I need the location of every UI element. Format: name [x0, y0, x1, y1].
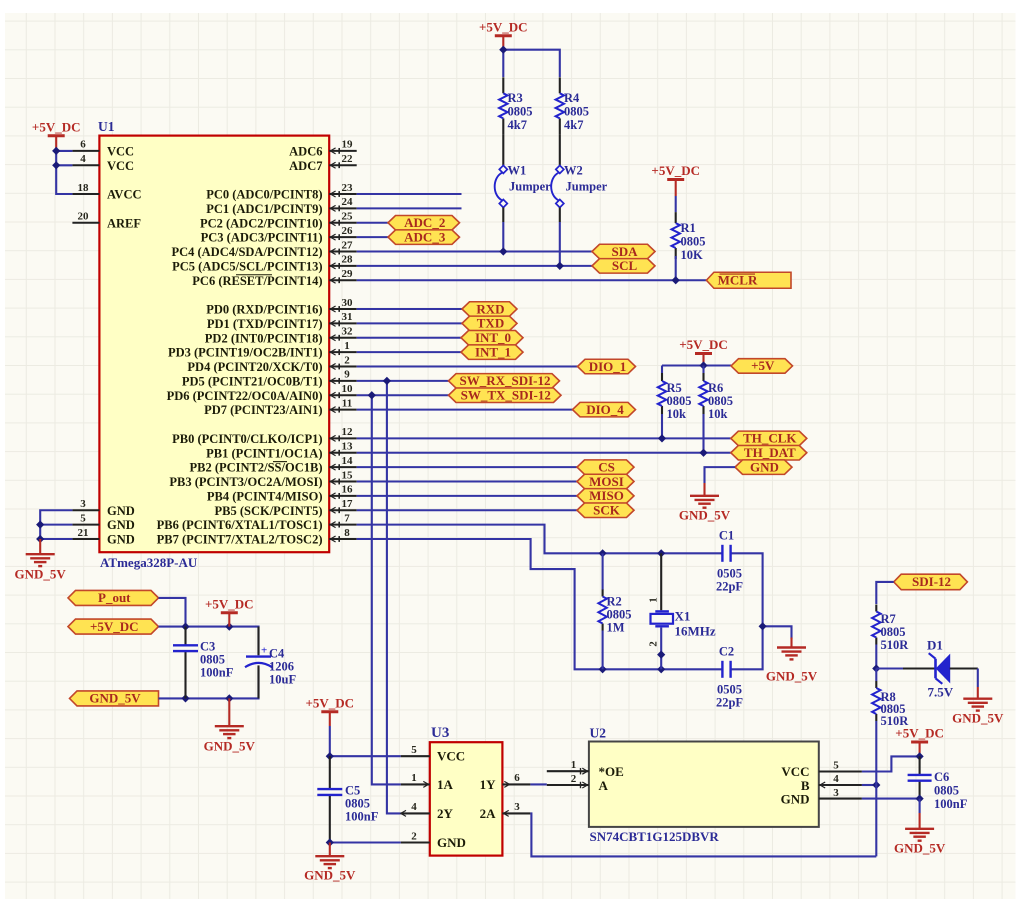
- svg-text:GND: GND: [437, 835, 466, 850]
- power +5V_DC above C3/C4: [205, 596, 254, 626]
- net label SDI-12: [894, 574, 968, 590]
- svg-text:PC4 (ADC4/SDA/PCINT12): PC4 (ADC4/SDA/PCINT12): [171, 245, 322, 259]
- junction R5/PB0: [659, 435, 666, 442]
- svg-text:R6: R6: [708, 381, 723, 395]
- svg-text:0805: 0805: [881, 625, 906, 639]
- svg-text:PB7 (PCINT7/XTAL2/TOSC2): PB7 (PCINT7/XTAL2/TOSC2): [157, 533, 323, 547]
- junction VCC node: [53, 148, 60, 155]
- net label ADC_2: [388, 215, 460, 230]
- junction X1 top: [658, 550, 665, 557]
- ground GND_5V below C3/C4: [204, 698, 256, 753]
- svg-text:PB4 (PCINT4/MISO): PB4 (PCINT4/MISO): [207, 489, 323, 503]
- U1 pin 8: [329, 527, 357, 542]
- wire +5V rail to C4: [159, 627, 259, 655]
- svg-text:VCC: VCC: [107, 144, 134, 158]
- wire D1 to ground: [977, 669, 979, 688]
- svg-text:10k: 10k: [667, 407, 687, 421]
- svg-text:GND: GND: [107, 504, 135, 518]
- svg-text:TH_CLK: TH_CLK: [743, 431, 797, 446]
- svg-text:2: 2: [571, 773, 577, 785]
- svg-text:*OE: *OE: [599, 764, 624, 779]
- U3 pin 5: [401, 744, 430, 756]
- U1 pin 31: [329, 311, 357, 326]
- wire C5 leads: [329, 756, 331, 842]
- svg-text:4: 4: [411, 801, 417, 813]
- wire R8 to bottom run: [875, 721, 877, 856]
- U1 pin 20: [72, 211, 99, 223]
- ground GND_5V below U1: [15, 539, 67, 582]
- U2 pin 5: [819, 760, 862, 772]
- U1 pin 18: [72, 182, 99, 194]
- svg-text:C1: C1: [719, 529, 734, 543]
- wire SDI-12 to R7: [876, 582, 893, 604]
- svg-text:GND_5V: GND_5V: [894, 841, 946, 856]
- net label ADC_3: [388, 229, 460, 244]
- svg-text:PB1 (PCINT1/OC1A): PB1 (PCINT1/OC1A): [206, 446, 322, 460]
- svg-text:15: 15: [342, 469, 354, 481]
- svg-text:+5V_DC: +5V_DC: [32, 119, 81, 134]
- wire PD3 INT_1: [357, 351, 461, 353]
- svg-text:0805: 0805: [508, 105, 533, 119]
- svg-text:PC2 (ADC2/PCINT10): PC2 (ADC2/PCINT10): [200, 216, 323, 230]
- wire PB3 MOSI: [357, 480, 577, 482]
- net label INT_0: [461, 330, 523, 345]
- wire PB5 SCK: [357, 509, 577, 511]
- wire U2 B to SDI line: [862, 784, 876, 786]
- U1 pin 4: [72, 153, 99, 165]
- wire PD7 DIO_4: [357, 409, 573, 411]
- junction +5V R3/R4: [500, 46, 507, 53]
- svg-text:1: 1: [344, 340, 350, 352]
- svg-text:14: 14: [342, 455, 354, 467]
- svg-text:U2: U2: [590, 726, 607, 741]
- svg-text:100nF: 100nF: [200, 666, 234, 680]
- wire GND rail to C4: [159, 668, 259, 699]
- svg-text:+5V_DC: +5V_DC: [651, 163, 700, 178]
- svg-text:CS: CS: [598, 459, 615, 474]
- svg-text:+5V_DC: +5V_DC: [306, 695, 355, 710]
- wire U2 VCC to +5V node: [862, 756, 920, 771]
- svg-text:0805: 0805: [681, 235, 706, 249]
- svg-text:25: 25: [342, 211, 354, 223]
- svg-text:C3: C3: [200, 640, 215, 654]
- wire VCC pin6: [56, 150, 72, 152]
- wire node to R8: [875, 669, 877, 682]
- svg-text:13: 13: [342, 441, 354, 453]
- svg-text:PC0 (ADC0/PCINT8): PC0 (ADC0/PCINT8): [206, 188, 322, 202]
- wire W2 to bus: [559, 222, 561, 266]
- svg-text:PC1 (ADC1/PCINT9): PC1 (ADC1/PCINT9): [206, 202, 322, 216]
- wire PC0: [357, 193, 462, 195]
- svg-text:22pF: 22pF: [716, 580, 743, 594]
- svg-text:0805: 0805: [564, 105, 589, 119]
- svg-text:2Y: 2Y: [437, 806, 454, 821]
- wire PC5 SCL net: [357, 265, 592, 267]
- svg-text:31: 31: [342, 311, 353, 323]
- net label GND_5V flag: [70, 691, 159, 706]
- U1 right pin names: [157, 144, 323, 546]
- svg-text:1: 1: [571, 759, 577, 771]
- svg-text:C2: C2: [719, 645, 734, 659]
- svg-text:12: 12: [342, 426, 354, 438]
- svg-text:5: 5: [80, 512, 86, 524]
- svg-text:1: 1: [411, 772, 417, 784]
- svg-text:PD5 (PCINT21/OC0B/T1): PD5 (PCINT21/OC0B/T1): [182, 374, 323, 388]
- resistor R6: [699, 373, 733, 421]
- junction GND pin5: [37, 521, 44, 528]
- svg-text:0805: 0805: [607, 608, 632, 622]
- svg-text:VCC: VCC: [437, 749, 465, 764]
- svg-text:3: 3: [80, 498, 86, 510]
- U1 pin 6: [72, 139, 99, 151]
- svg-text:GND: GND: [781, 792, 810, 807]
- wire PB6 to crystal top rail: [357, 525, 723, 554]
- svg-text:7: 7: [344, 512, 350, 524]
- svg-text:C6: C6: [934, 770, 949, 784]
- U1 pin 24: [329, 196, 357, 211]
- net label +5V_DC flag: [68, 619, 159, 634]
- svg-text:TXD: TXD: [477, 316, 504, 331]
- capacitor C1: [716, 529, 743, 594]
- buffer U3 body: [430, 725, 503, 856]
- svg-text:INT_0: INT_0: [475, 330, 511, 345]
- svg-text:PC3 (ADC3/PCINT11): PC3 (ADC3/PCINT11): [201, 231, 323, 245]
- svg-text:GND_5V: GND_5V: [89, 691, 141, 706]
- svg-text:22: 22: [342, 153, 354, 165]
- wire C6 leads: [919, 756, 921, 798]
- svg-text:X1: X1: [675, 609, 691, 624]
- svg-text:9: 9: [344, 369, 350, 381]
- svg-text:PC6 (RESET/PCINT14): PC6 (RESET/PCINT14): [192, 274, 322, 288]
- svg-text:GND_5V: GND_5V: [304, 868, 356, 883]
- junction gnd stem: [226, 695, 233, 702]
- svg-text:27: 27: [342, 239, 354, 251]
- svg-text:23: 23: [342, 182, 354, 194]
- svg-text:1A: 1A: [437, 777, 454, 792]
- U3 pin 2: [401, 830, 430, 842]
- U1 pin 7: [329, 512, 357, 527]
- U2 pin 2: [547, 773, 589, 788]
- power +5V_DC above C6: [895, 726, 944, 757]
- svg-text:2A: 2A: [480, 806, 497, 821]
- junction C5 bottom: [326, 839, 333, 846]
- junction R7/R8/D1: [873, 665, 880, 672]
- power +5V_DC above R3: [479, 19, 528, 49]
- svg-text:MOSI: MOSI: [589, 474, 624, 489]
- U1 pin 26: [329, 225, 357, 240]
- U1 pin 9: [329, 369, 357, 384]
- junction R1/PC6: [672, 277, 679, 284]
- svg-text:PD2 (INT0/PCINT18): PD2 (INT0/PCINT18): [205, 331, 323, 345]
- svg-text:PB6 (PCINT6/XTAL1/TOSC1): PB6 (PCINT6/XTAL1/TOSC1): [157, 518, 323, 532]
- svg-text:7.5V: 7.5V: [928, 685, 954, 700]
- U1 pin 16: [329, 484, 357, 499]
- resistor R2: [598, 590, 631, 635]
- svg-text:W2: W2: [564, 164, 583, 178]
- svg-text:5: 5: [411, 744, 417, 756]
- resistor R5: [658, 373, 692, 421]
- capacitor C2: [716, 645, 743, 710]
- svg-text:SW_TX_SDI-12: SW_TX_SDI-12: [461, 388, 551, 403]
- svg-text:PB2 (PCINT2/SS/OC1B): PB2 (PCINT2/SS/OC1B): [189, 461, 322, 475]
- ground GND_5V below C6: [894, 813, 946, 856]
- junction VCC pin4 node: [53, 162, 60, 169]
- wire crystal right side: [731, 553, 763, 669]
- wire PD6 SW_TX: [357, 394, 449, 396]
- svg-text:SW_RX_SDI-12: SW_RX_SDI-12: [459, 373, 550, 388]
- svg-text:SDI-12: SDI-12: [912, 574, 951, 589]
- svg-text:22pF: 22pF: [716, 696, 743, 710]
- svg-text:5: 5: [833, 760, 839, 772]
- U1 pin 1: [329, 340, 357, 355]
- wire +5V to R3: [502, 50, 504, 77]
- junction crystal gnd tap: [759, 623, 766, 630]
- svg-text:C5: C5: [345, 784, 360, 798]
- svg-text:AREF: AREF: [107, 216, 141, 230]
- wire +5V to C5 node: [329, 726, 331, 756]
- net label SCK: [577, 503, 634, 518]
- ground GND_5V TH sensor: [679, 483, 731, 523]
- jumper W2: [551, 134, 607, 222]
- svg-text:16MHz: 16MHz: [675, 624, 716, 639]
- svg-text:4: 4: [833, 773, 839, 785]
- svg-text:0805: 0805: [667, 394, 692, 408]
- U1 pin 32: [329, 326, 357, 341]
- U1 pin 21: [72, 527, 99, 539]
- svg-text:MCLR: MCLR: [718, 273, 758, 288]
- svg-text:28: 28: [342, 254, 354, 266]
- svg-text:+5V_DC: +5V_DC: [679, 337, 728, 352]
- svg-text:2: 2: [648, 641, 660, 647]
- net label INT_1: [461, 344, 523, 359]
- svg-text:VCC: VCC: [781, 764, 809, 779]
- U1 left pin names: [107, 144, 142, 546]
- svg-text:32: 32: [342, 326, 354, 338]
- net label P_out: [68, 590, 159, 605]
- power +5V_DC above R5/R6: [679, 337, 728, 366]
- svg-text:ADC6: ADC6: [289, 144, 322, 158]
- svg-text:PD6 (PCINT22/OC0A/AIN0): PD6 (PCINT22/OC0A/AIN0): [167, 389, 323, 403]
- svg-text:+5V_DC: +5V_DC: [90, 619, 139, 634]
- svg-text:10: 10: [342, 383, 354, 395]
- wire W1 to bus: [502, 222, 504, 252]
- junction B/SDI line: [873, 782, 880, 789]
- svg-text:SN74CBT1G125DBVR: SN74CBT1G125DBVR: [590, 829, 720, 844]
- svg-text:RXD: RXD: [476, 301, 504, 316]
- svg-text:GND: GND: [107, 518, 135, 532]
- MCLR overline: [720, 273, 756, 275]
- capacitor C5: [317, 784, 378, 824]
- net label SW_RX_SDI-12: [449, 373, 560, 388]
- U1 pin 11: [329, 397, 357, 412]
- wire U3 GND: [330, 841, 401, 843]
- svg-text:VCC: VCC: [107, 159, 134, 173]
- svg-text:PB5 (SCK/PCINT5): PB5 (SCK/PCINT5): [215, 504, 323, 518]
- svg-text:ADC7: ADC7: [289, 159, 322, 173]
- svg-text:+5V_DC: +5V_DC: [205, 596, 254, 611]
- svg-text:DIO_4: DIO_4: [586, 402, 624, 417]
- svg-text:+5V_DC: +5V_DC: [479, 19, 528, 34]
- net label MOSI: [577, 474, 634, 489]
- U1 pin 17: [329, 498, 357, 513]
- wire SW_TX to U3 1A: [372, 395, 401, 784]
- svg-text:0505: 0505: [717, 567, 742, 581]
- ground GND_5V crystal: [766, 638, 818, 684]
- capacitor C3: [173, 640, 234, 680]
- wire SW_RX to U3 2Y: [387, 381, 401, 814]
- svg-text:3: 3: [833, 787, 839, 799]
- resistor R3: [499, 77, 532, 134]
- svg-text:GND_5V: GND_5V: [679, 508, 731, 523]
- svg-text:GND: GND: [107, 533, 135, 547]
- wire PC2: [357, 222, 388, 224]
- junction W1/PC4: [500, 248, 507, 255]
- junction R2 top: [599, 550, 606, 557]
- svg-text:W1: W1: [508, 164, 527, 178]
- U1 pin 5: [72, 512, 99, 524]
- svg-text:30: 30: [342, 297, 354, 309]
- svg-text:C4: C4: [269, 647, 285, 661]
- svg-text:GND_5V: GND_5V: [766, 669, 818, 684]
- svg-text:INT_1: INT_1: [475, 344, 511, 359]
- U1 pin 25: [329, 211, 357, 226]
- svg-text:R4: R4: [564, 91, 580, 105]
- junction R2 bottom: [599, 666, 606, 673]
- wire C6 to ground: [919, 799, 921, 813]
- svg-text:+: +: [261, 645, 267, 657]
- wire +5V to R1: [675, 196, 677, 212]
- svg-text:4: 4: [80, 153, 86, 165]
- U1 pin 27: [329, 239, 357, 254]
- net label MCLR: [706, 272, 791, 288]
- wire R5 to TH_CLK: [661, 414, 663, 438]
- svg-text:10k: 10k: [708, 407, 728, 421]
- svg-text:A: A: [599, 778, 609, 793]
- svg-text:R2: R2: [607, 595, 622, 609]
- U1 pin 22: [329, 153, 357, 168]
- svg-text:TH_DAT: TH_DAT: [744, 445, 796, 460]
- wire PC1: [357, 207, 462, 209]
- svg-text:100nF: 100nF: [345, 810, 379, 824]
- wire PD1 TXD: [357, 322, 462, 324]
- svg-text:R3: R3: [508, 91, 523, 105]
- net label TH_DAT: [731, 445, 807, 460]
- junction C5 top: [326, 753, 333, 760]
- wire GND pin5: [40, 524, 72, 526]
- svg-text:U1: U1: [98, 119, 115, 134]
- net label MISO: [577, 488, 634, 503]
- wire to R6: [702, 366, 704, 374]
- net label GND: [735, 459, 792, 474]
- svg-text:PD3 (PCINT19/OC2B/INT1): PD3 (PCINT19/OC2B/INT1): [168, 346, 323, 360]
- wire PD0 RXD: [357, 308, 462, 310]
- svg-text:0805: 0805: [200, 653, 225, 667]
- net label RXD: [462, 301, 517, 316]
- junction X1 pin2 hotspot: [658, 651, 665, 658]
- svg-text:0805: 0805: [934, 784, 959, 798]
- wire C3 leads: [184, 627, 186, 699]
- svg-text:6: 6: [80, 139, 86, 151]
- svg-text:17: 17: [342, 498, 354, 510]
- junction SW_TX tap: [368, 392, 375, 399]
- svg-text:0805: 0805: [345, 797, 370, 811]
- junction C3 top: [182, 623, 189, 630]
- svg-text:4k7: 4k7: [508, 118, 527, 132]
- svg-text:PB0 (PCINT0/CLKO/ICP1): PB0 (PCINT0/CLKO/ICP1): [172, 432, 322, 446]
- resistor R7: [872, 605, 909, 653]
- U2 pin 4: [819, 773, 862, 788]
- wire rail to R2: [602, 553, 604, 590]
- junction C6 top: [916, 753, 923, 760]
- svg-text:Jumper: Jumper: [509, 180, 551, 194]
- wire PD2 INT_0: [357, 337, 461, 339]
- svg-text:GND_5V: GND_5V: [952, 711, 1004, 726]
- wire GND bus: [40, 510, 72, 539]
- svg-text:PD4 (PCINT20/XCK/T0): PD4 (PCINT20/XCK/T0): [187, 360, 322, 374]
- power +5V_DC above C5: [306, 695, 355, 726]
- svg-text:+5V: +5V: [751, 358, 775, 373]
- net label DIO_4: [573, 402, 636, 417]
- svg-text:ADC_3: ADC_3: [404, 229, 446, 244]
- ground GND_5V D1 cathode: [952, 687, 1004, 726]
- capacitor C4 polarized: [245, 627, 296, 699]
- svg-text:0505: 0505: [717, 683, 742, 697]
- U1 pin 2: [329, 354, 357, 369]
- svg-text:100nF: 100nF: [934, 797, 968, 811]
- net label TXD: [462, 316, 517, 331]
- wire X1 pin2: [660, 628, 662, 670]
- U1 pin 10: [329, 383, 357, 398]
- net label SW_TX_SDI-12: [449, 388, 562, 403]
- svg-text:D1: D1: [927, 638, 943, 653]
- U3 pin 4: [401, 801, 430, 816]
- wire +5V to R4: [503, 50, 560, 77]
- svg-text:0805: 0805: [708, 394, 733, 408]
- wire P_out: [159, 598, 186, 627]
- svg-text:8: 8: [344, 527, 350, 539]
- svg-text:PB3 (PCINT3/OC2A/MOSI): PB3 (PCINT3/OC2A/MOSI): [169, 475, 322, 489]
- U1 pin 3: [72, 498, 99, 510]
- svg-text:Jumper: Jumper: [566, 180, 608, 194]
- svg-text:19: 19: [342, 139, 354, 151]
- wire GND label to ground: [705, 467, 736, 483]
- svg-text:GND_5V: GND_5V: [15, 567, 67, 582]
- svg-text:2: 2: [344, 354, 350, 366]
- wire PB2 CS: [357, 466, 577, 468]
- svg-text:4k7: 4k7: [564, 118, 583, 132]
- svg-text:U3: U3: [431, 725, 449, 741]
- wire R1 to MCLR net: [675, 256, 677, 280]
- svg-text:SCK: SCK: [593, 503, 621, 518]
- net label SCL: [592, 258, 655, 273]
- ground GND_5V below C5: [304, 843, 356, 883]
- svg-text:PD1 (TXD/PCINT17): PD1 (TXD/PCINT17): [207, 317, 323, 331]
- svg-text:510R: 510R: [881, 638, 910, 652]
- wire PC6 MCLR net: [357, 279, 707, 281]
- svg-text:R1: R1: [681, 221, 696, 235]
- wire U2 GND: [862, 798, 920, 800]
- svg-text:20: 20: [78, 211, 90, 223]
- wire AVCC: [56, 151, 72, 194]
- svg-text:18: 18: [78, 182, 90, 194]
- U1 pin 28: [329, 254, 357, 269]
- svg-text:1: 1: [648, 597, 660, 603]
- net label CS: [577, 459, 634, 474]
- svg-text:SCL: SCL: [612, 258, 638, 273]
- wire U3 VCC: [330, 755, 401, 757]
- svg-text:1206: 1206: [269, 660, 294, 674]
- svg-text:16: 16: [342, 484, 354, 496]
